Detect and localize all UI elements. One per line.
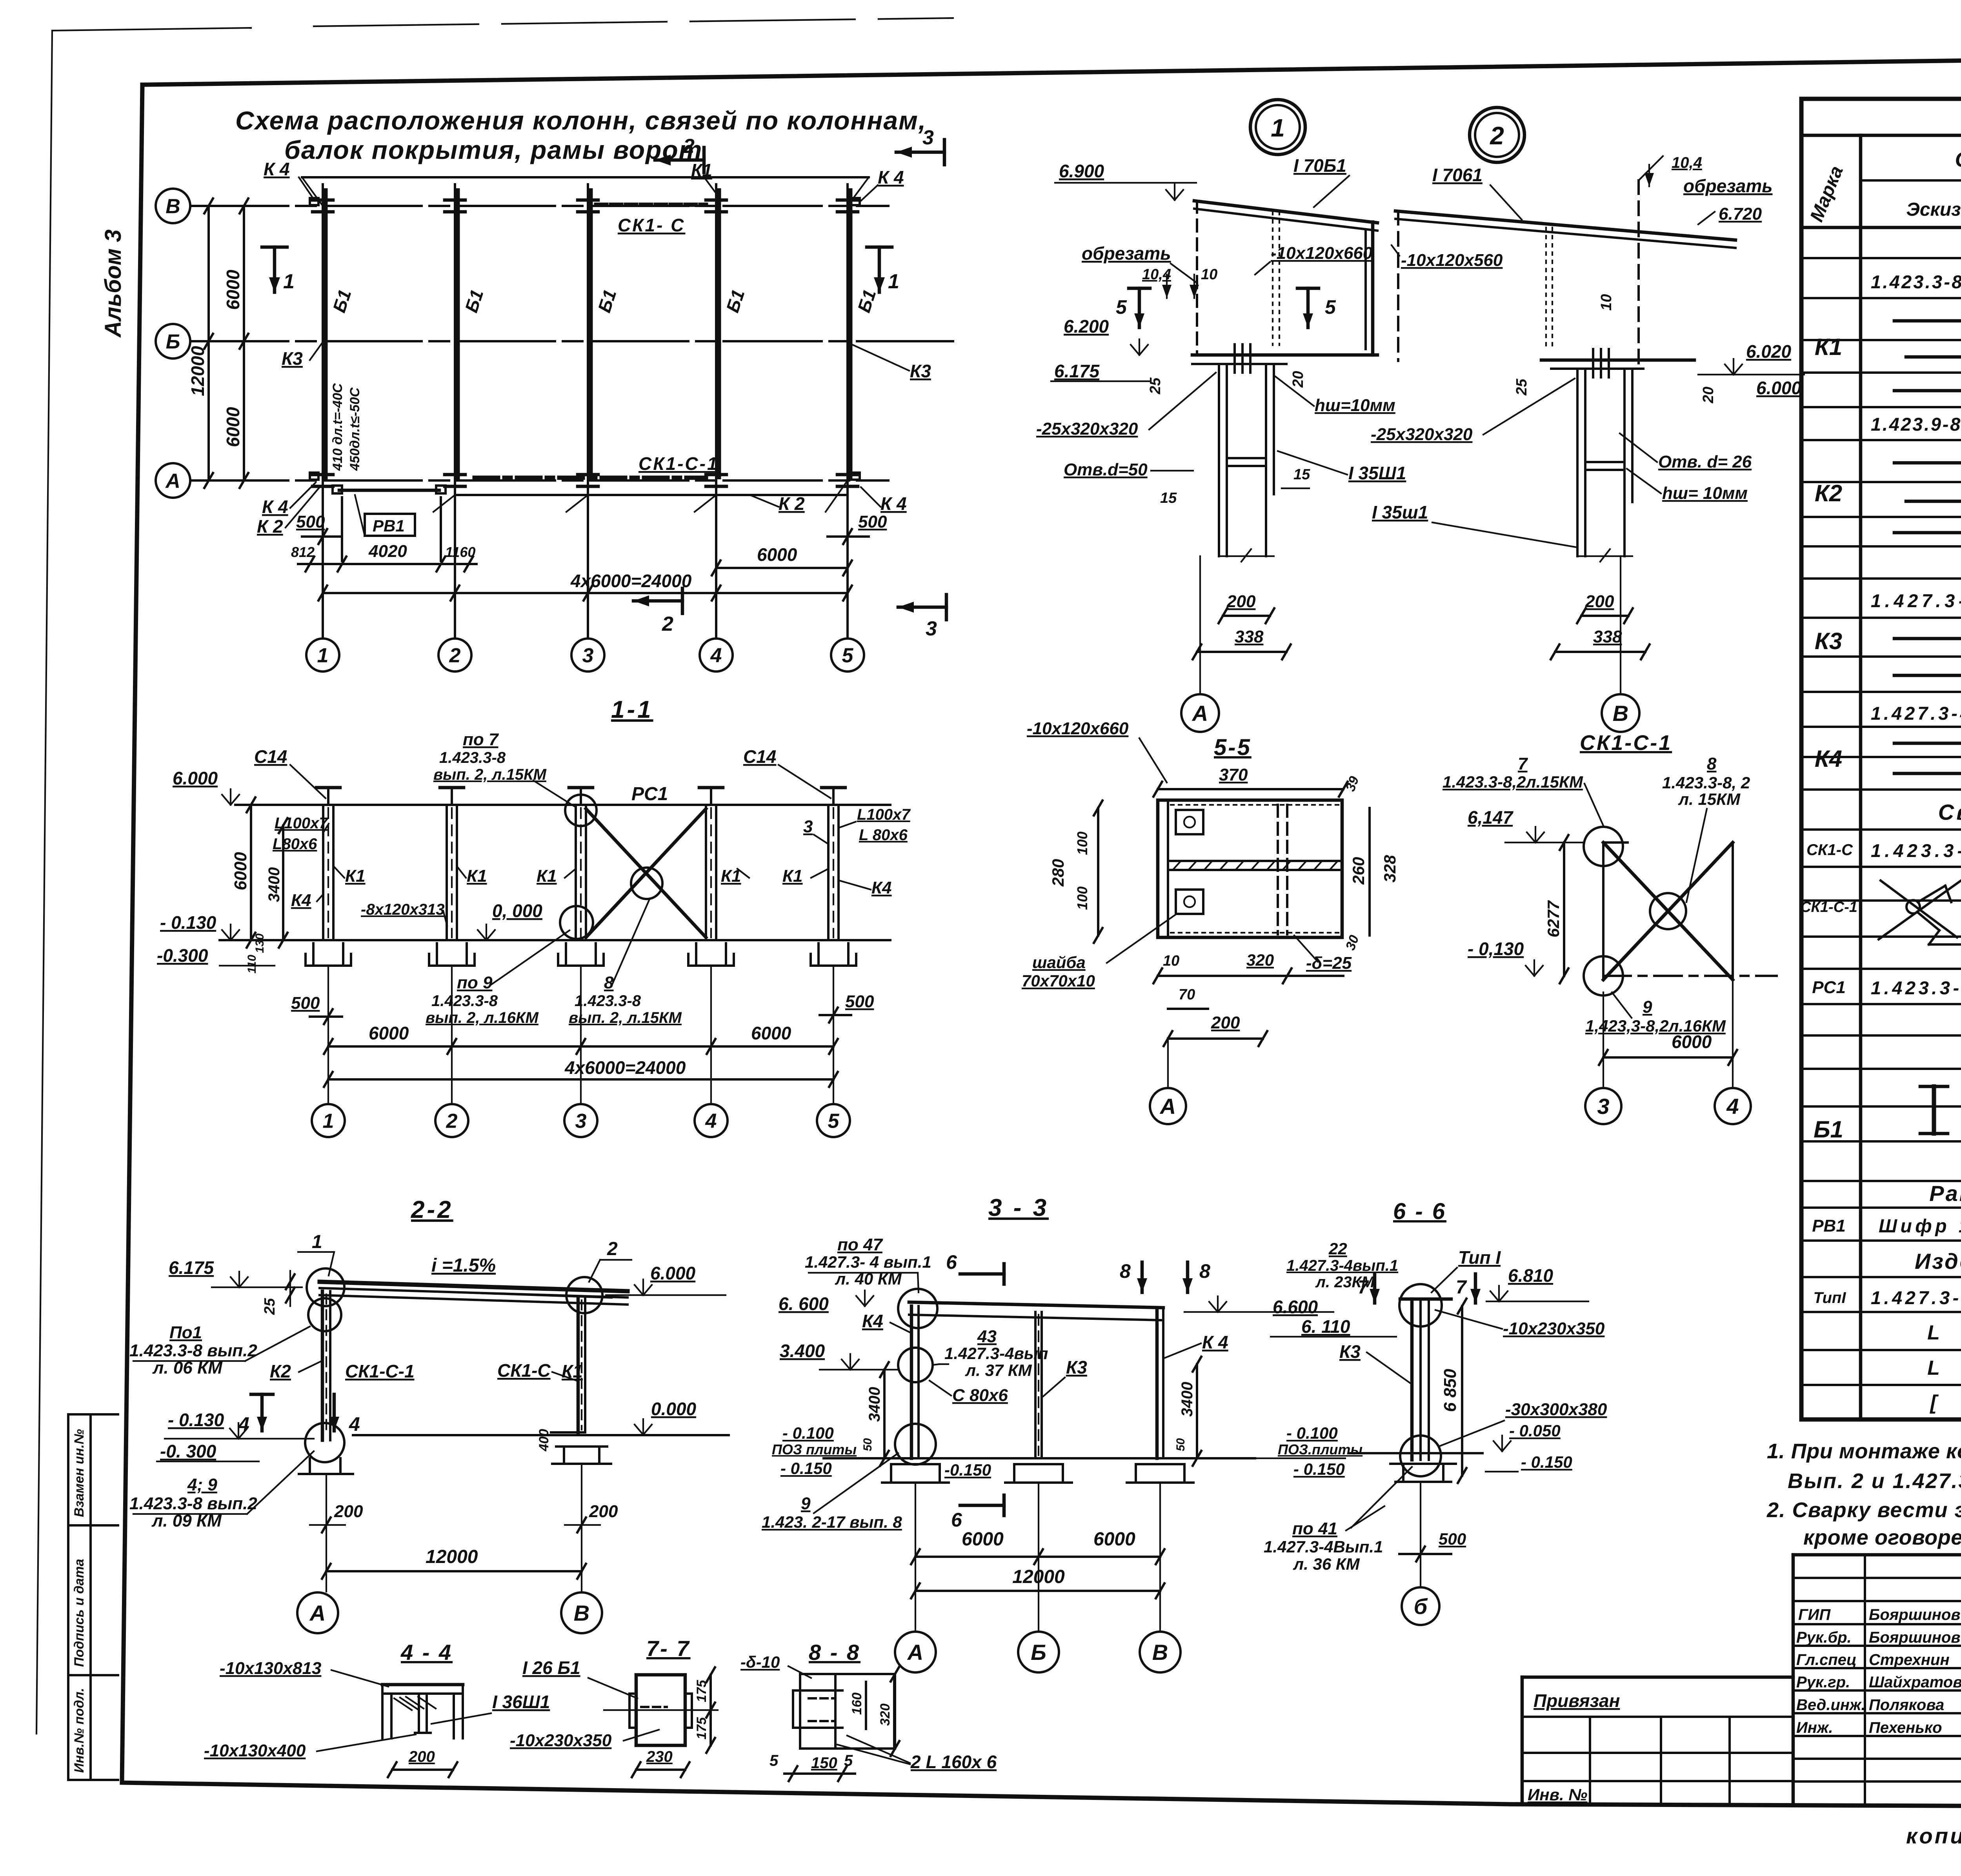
svg-text:Бояршинов: Бояршинов [1869, 1629, 1961, 1646]
svg-text:70х70х10: 70х70х10 [1022, 972, 1095, 990]
1-1 left vertical dims [250, 805, 252, 940]
2-2 node circles [307, 1268, 344, 1306]
sk brace columns [1602, 842, 1604, 980]
plan axis B [190, 340, 953, 342]
3-3 section mark 6 bottom [960, 1504, 1004, 1507]
row K2 plate 10x130x313 [1906, 500, 1961, 503]
svg-text:I 35Ш1: I 35Ш1 [1348, 463, 1406, 483]
dim row 812/4020/1160 [298, 563, 477, 565]
1-1 footing grid 2 [436, 943, 438, 966]
svg-text:6000: 6000 [962, 1529, 1004, 1550]
3-3 section mark 6 top [960, 1272, 1004, 1276]
svg-text:100: 100 [1074, 832, 1090, 855]
node2 weld stiffener dots [1545, 227, 1547, 351]
svg-text:6000: 6000 [369, 1023, 409, 1043]
column symbol at A axis grid 4 [706, 473, 726, 477]
1-1 ground line [220, 939, 890, 941]
svg-text:7- 7: 7- 7 [646, 1636, 691, 1661]
svg-text:-10х130х813: -10х130х813 [220, 1659, 321, 1678]
page paper edge top [52, 28, 251, 31]
svg-text:Гл.спец: Гл.спец [1796, 1651, 1857, 1669]
svg-text:200: 200 [334, 1502, 363, 1521]
svg-text:6: 6 [951, 1509, 962, 1531]
svg-text:410 дл.t=-40С: 410 дл.t=-40С [330, 383, 345, 471]
sk diagonals [1603, 842, 1733, 980]
svg-text:К4: К4 [871, 878, 892, 897]
5-5 bolts [1176, 810, 1203, 834]
node1 axis leader + bubble A [1199, 556, 1201, 693]
node2 left break [1397, 211, 1399, 361]
svg-text:I 26 Б1: I 26 Б1 [522, 1658, 580, 1678]
svg-text:СК1- С: СК1- С [618, 215, 685, 235]
svg-text:обрезать: обрезать [1683, 176, 1773, 196]
svg-text:3 - 3: 3 - 3 [988, 1194, 1049, 1221]
2-2 left footing [309, 1458, 311, 1474]
svg-text:СК1-С-1: СК1-С-1 [345, 1361, 415, 1381]
svg-text:4 - 4: 4 - 4 [400, 1640, 453, 1665]
svg-text:-0. 300: -0. 300 [160, 1441, 216, 1461]
svg-text:7: 7 [1518, 754, 1528, 773]
section mark 2 top [655, 158, 704, 162]
node2 bolts [1592, 349, 1594, 377]
svg-text:К4: К4 [291, 891, 311, 910]
svg-text:шайба: шайба [1032, 953, 1086, 972]
svg-text:В: В [166, 195, 180, 218]
svg-text:6.175: 6.175 [1054, 361, 1100, 381]
svg-text:ГИП: ГИП [1798, 1606, 1831, 1623]
svg-text:15: 15 [1160, 490, 1177, 506]
node1 beam I70B1 top flange [1194, 201, 1377, 223]
svg-text:200: 200 [408, 1748, 435, 1765]
2-2 ground line [353, 1434, 729, 1436]
plan grid line 4 [715, 184, 717, 637]
svg-text:i =1.5%: i =1.5% [431, 1255, 496, 1276]
column symbol at V axis grid 4 [706, 198, 726, 202]
svg-text:2 L 160х 6: 2 L 160х 6 [910, 1752, 997, 1772]
2-2 left base circle [305, 1423, 344, 1462]
svg-text:hш=10мм: hш=10мм [1315, 396, 1395, 415]
svg-text:338: 338 [1593, 627, 1622, 646]
svg-text:-10х120х660: -10х120х660 [1027, 719, 1129, 738]
grid bubble 1 [306, 639, 339, 671]
svg-text:70: 70 [1179, 986, 1195, 1003]
plan bottom wall edge [455, 494, 848, 496]
row K2 plate 8x120x313 [1894, 531, 1961, 535]
6-6 top tee [1400, 1297, 1451, 1301]
svg-text:РВ1: РВ1 [1812, 1216, 1846, 1236]
5-5 right dims [1368, 808, 1371, 935]
3-3 footings [891, 1463, 940, 1465]
svg-text:I 35ш1: I 35ш1 [1372, 502, 1428, 522]
svg-text:1: 1 [323, 1110, 334, 1133]
svg-text:500: 500 [291, 993, 320, 1013]
svg-text:22: 22 [1328, 1239, 1347, 1258]
1-1 column K1 on grid 5 [827, 805, 830, 940]
5-5 mid flange band [1168, 860, 1342, 862]
svg-text:500: 500 [858, 512, 887, 531]
svg-text:500: 500 [296, 512, 325, 531]
svg-text:L100х7: L100х7 [857, 806, 911, 823]
node 1 bubble [1250, 100, 1305, 155]
2-2 section mark 4 left [260, 1394, 264, 1431]
node2 cut dashed line right [1637, 180, 1640, 369]
svg-text:7: 7 [1358, 1277, 1369, 1298]
svg-text:РС1: РС1 [631, 784, 668, 804]
svg-text:1.423.3-8 вып.2: 1.423.3-8 вып.2 [129, 1341, 257, 1360]
svg-text:-10х130х400: -10х130х400 [204, 1741, 306, 1760]
4-4 channel section [382, 1685, 463, 1738]
svg-text:1160: 1160 [445, 544, 475, 560]
1-1 top chord line 6.000 [235, 804, 890, 806]
svg-text:6.000: 6.000 [173, 768, 218, 788]
6-6 note 41 leader [1351, 1467, 1412, 1528]
svg-text:К4: К4 [862, 1311, 883, 1331]
beam B1 on grid 4 [717, 188, 721, 479]
svg-text:2: 2 [683, 135, 695, 158]
svg-text:1. При монтаже конструкций ру: 1. При монтаже конструкций руководсвоват… [1767, 1439, 1961, 1463]
svg-text:вып. 2, л.16КМ: вып. 2, л.16КМ [426, 1009, 539, 1026]
1-1 anchor tee on top grid 4 [710, 788, 712, 805]
column symbol at A axis grid 2 [445, 473, 465, 477]
1-1 grid bubble 5 [817, 1104, 850, 1137]
svg-text:Вып. 2 и 1.427.3 - 4 Вып. 1,: Вып. 2 и 1.427.3 - 4 Вып. 1, СНиП III-24… [1788, 1469, 1961, 1493]
svg-text:3: 3 [926, 617, 937, 640]
row K1 plate 10x130x313 [1906, 355, 1961, 359]
node1 cap plate [1192, 353, 1377, 357]
7-7 section body [604, 1675, 718, 1745]
svg-text:6000: 6000 [751, 1023, 791, 1043]
svg-text:Вед.инж.: Вед.инж. [1796, 1696, 1866, 1714]
1-1 anchor tee on top grid 2 [451, 788, 453, 805]
svg-text:К4: К4 [1815, 746, 1842, 772]
svg-text:- 0.130: - 0.130 [168, 1410, 224, 1430]
svg-text:СК1-С: СК1-С [497, 1360, 551, 1381]
svg-text:6 850: 6 850 [1441, 1368, 1460, 1412]
svg-text:СК1-С-1: СК1-С-1 [639, 453, 719, 474]
8-8 dims 160 320 [865, 1682, 867, 1729]
svg-text:370: 370 [1219, 765, 1248, 784]
svg-text:3.400: 3.400 [780, 1341, 825, 1361]
svg-text:6.175: 6.175 [169, 1257, 215, 1278]
svg-text:25: 25 [1513, 378, 1530, 396]
3-3 middle column K3 [1034, 1312, 1037, 1458]
3-3 roof beam [909, 1302, 1163, 1308]
dim 6000 grid4-5 [716, 567, 848, 569]
6-6 footing [1402, 1464, 1404, 1482]
node1 column [1218, 364, 1220, 556]
svg-text:Эскиз: Эскиз [1906, 199, 1961, 220]
3-3 bubbles A B V [895, 1632, 936, 1672]
svg-text:вып. 2, л.15КМ: вып. 2, л.15КМ [569, 1009, 682, 1026]
svg-text:В: В [1613, 701, 1628, 726]
svg-text:hш= 10мм: hш= 10мм [1662, 484, 1748, 503]
6-6 base circle [1400, 1436, 1441, 1476]
svg-text:50: 50 [1174, 1438, 1187, 1451]
svg-text:320: 320 [1246, 951, 1274, 969]
row K2 plate 10x130x400 [1894, 461, 1961, 465]
svg-text:1.423.3-8 вып.2л.22КМ, л27 КМ: 1.423.3-8 вып.2л.22КМ, л27 КМ СК1-С [1871, 840, 1961, 861]
svg-text:6. 110: 6. 110 [1301, 1316, 1350, 1337]
svg-text:-δ-10: -δ-10 [740, 1653, 780, 1671]
svg-text:6.020: 6.020 [1746, 341, 1792, 362]
svg-text:Пехенько: Пехенько [1869, 1719, 1942, 1736]
vertical brace SK1-S-1 on axis A between 2-4 [475, 476, 706, 480]
column symbol at A axis grid 3 [578, 473, 598, 477]
plan grid line 5 [846, 184, 849, 637]
2-2 right column K1 [577, 1297, 580, 1432]
svg-text:по 9: по 9 [457, 973, 493, 992]
7-7 dims 175 175 [709, 1675, 712, 1745]
svg-text:СК1-С: СК1-С [1806, 841, 1853, 859]
svg-text:2: 2 [662, 613, 673, 635]
1-1 grid leader below 1 [327, 966, 329, 1104]
row K4 20x220x420 [1894, 772, 1961, 775]
vertical brace SK1-S on axis V between 3-4 [596, 203, 706, 207]
section mark 1 left [273, 247, 277, 292]
node1 weld stiffener dots [1272, 212, 1273, 345]
5-5 weld ticks top [1171, 804, 1341, 806]
2-2 section mark 4 mid [333, 1394, 336, 1431]
svg-text:5: 5 [828, 1110, 840, 1133]
gate frame RV1 below axis A [339, 489, 439, 492]
1-1 anchor tee on top grid 3 [580, 788, 582, 805]
1-1 footing grid 1 [312, 943, 315, 966]
title block signature table [1793, 1555, 1961, 1804]
svg-text:3: 3 [803, 817, 813, 836]
svg-text:л. 15КМ: л. 15КМ [1678, 790, 1741, 808]
svg-text:1.423.3-8: 1.423.3-8 [439, 749, 506, 766]
svg-text:А: А [309, 1601, 326, 1625]
svg-text:50: 50 [861, 1438, 874, 1451]
svg-text:1: 1 [1271, 114, 1285, 142]
svg-text:СК1-С-1: СК1-С-1 [1800, 899, 1857, 915]
svg-text:1.423.3-8: 1.423.3-8 [431, 992, 498, 1010]
svg-text:А: А [907, 1640, 923, 1665]
svg-text:-0.300: -0.300 [157, 945, 208, 966]
node1 section mark 5 right [1306, 288, 1310, 328]
svg-text:160: 160 [850, 1692, 864, 1715]
vertical dims 6000/6000 [243, 206, 245, 480]
drawing frame left [122, 85, 142, 1781]
svg-text:6.720: 6.720 [1719, 204, 1762, 224]
grid bubble 3 [571, 639, 604, 671]
svg-text:Бояршинов: Бояршинов [1869, 1606, 1961, 1623]
svg-text:-25х320х320: -25х320х320 [1036, 419, 1138, 439]
svg-text:200: 200 [1226, 592, 1256, 611]
1-1 column K1 on grid 1 [322, 805, 324, 940]
svg-text:1.423.9-8 вып.2 л. 01 КМ, КБ6: 1.423.9-8 вып.2 л. 01 КМ, КБ60.6-1-КС(ℓ=… [1871, 414, 1961, 435]
1-1 dim 24000 row [328, 1078, 833, 1081]
drawing frame bottom [122, 1783, 1961, 1808]
3-3 node circles on left column [898, 1348, 933, 1382]
sk node circles [1584, 827, 1623, 866]
1-1 grid leader below 3 [580, 966, 582, 1104]
svg-text:Шайхратов: Шайхратов [1869, 1674, 1961, 1691]
svg-text:К3: К3 [1815, 628, 1842, 654]
svg-text:-30х300х380: -30х300х380 [1505, 1400, 1607, 1419]
svg-text:6.900: 6.900 [1059, 161, 1104, 181]
1-1 grid bubble 1 [312, 1104, 345, 1137]
svg-text:4: 4 [1726, 1094, 1739, 1119]
svg-text:Инв.№ подл.: Инв.№ подл. [72, 1688, 87, 1773]
svg-text:230: 230 [646, 1748, 673, 1765]
svg-text:6000: 6000 [757, 544, 797, 565]
svg-text:450дл.t≤-50С: 450дл.t≤-50С [347, 388, 362, 471]
svg-text:К3: К3 [282, 348, 303, 369]
1-1 anchor tee on top grid 1 [327, 788, 329, 805]
svg-text:Схема расположения колонн, с: Схема расположения колонн, связей по кол… [235, 106, 926, 135]
svg-text:6000: 6000 [1093, 1529, 1135, 1550]
svg-text:А: А [1159, 1094, 1176, 1119]
svg-text:Рук.гр.: Рук.гр. [1796, 1674, 1850, 1691]
6-6 grid leader + bubble b [1420, 1482, 1421, 1587]
svg-text:9: 9 [1643, 997, 1652, 1017]
2-2 right small ledge [551, 1431, 585, 1434]
2-2 left column K2 [321, 1291, 324, 1440]
svg-text:5: 5 [1116, 296, 1127, 318]
svg-text:С14: С14 [743, 746, 776, 767]
svg-text:Стрехнин: Стрехнин [1869, 1651, 1950, 1669]
sketch X brace in eskiz cell [1879, 881, 1961, 939]
svg-text:1.427.3-4вып: 1.427.3-4вып [944, 1344, 1048, 1363]
1-1 column K1 on grid 2 [446, 805, 448, 940]
svg-text:6000: 6000 [223, 407, 243, 447]
column symbol at V axis grid 1 [313, 198, 333, 202]
svg-text:15: 15 [1293, 466, 1310, 483]
element table Vedomost elementov [1801, 99, 1961, 1419]
svg-text:20: 20 [1700, 387, 1717, 404]
sk bottom dash line [1603, 975, 1777, 977]
1-1 grid bubble 2 [435, 1104, 468, 1137]
svg-text:4х6000=24000: 4х6000=24000 [570, 571, 692, 591]
svg-text:6000: 6000 [223, 269, 243, 310]
svg-text:- 0,130: - 0,130 [1468, 939, 1524, 959]
svg-text:7: 7 [1456, 1277, 1467, 1298]
page paper edge left [36, 31, 52, 1734]
plan grid line 1 [322, 184, 324, 637]
svg-text:Б: Б [166, 331, 180, 353]
corner column marks K4 plan [310, 198, 318, 205]
1-1 footing grid 5 [817, 943, 820, 966]
svg-text:100: 100 [1074, 886, 1090, 910]
3-3 grid leaders [915, 1483, 916, 1631]
svg-text:3: 3 [582, 644, 594, 667]
3-3 ground line [824, 1457, 1255, 1459]
svg-text:- 0.100: - 0.100 [1286, 1424, 1338, 1442]
svg-text:10,4: 10,4 [1672, 154, 1702, 171]
svg-text:К 4: К 4 [878, 167, 904, 187]
2-2 grid leaders [326, 1474, 327, 1592]
svg-text:- 0.150: - 0.150 [1293, 1460, 1345, 1478]
svg-text:5: 5 [842, 644, 854, 667]
beam B1 on grid 2 [456, 188, 460, 479]
svg-text:280: 280 [1049, 859, 1067, 887]
svg-text:- 0.100: - 0.100 [782, 1424, 834, 1442]
svg-text:К1: К1 [691, 160, 712, 180]
svg-text:260: 260 [1349, 857, 1368, 885]
svg-text:1.423.3-8 вып.2: 1.423.3-8 вып.2 [129, 1494, 257, 1513]
svg-text:I 70Б1: I 70Б1 [1293, 155, 1346, 176]
svg-text:А: А [1192, 701, 1208, 726]
svg-text:500: 500 [845, 992, 874, 1011]
svg-text:К 2: К 2 [779, 493, 805, 514]
left small table Privyazan [1522, 1677, 1793, 1804]
svg-text:20: 20 [1290, 371, 1306, 388]
node1 column rib lines [1227, 457, 1266, 459]
svg-text:1.427.3-4вып.1: 1.427.3-4вып.1 [1286, 1257, 1398, 1274]
svg-text:6: 6 [946, 1251, 957, 1273]
svg-text:К3: К3 [1339, 1341, 1361, 1362]
6-6 node circle [1399, 1284, 1442, 1326]
svg-text:Альбом 3: Альбом 3 [100, 229, 126, 338]
svg-text:по 7: по 7 [463, 730, 499, 749]
svg-text:Рук.бр.: Рук.бр. [1796, 1629, 1852, 1646]
svg-text:6.200: 6.200 [1064, 316, 1109, 337]
svg-text:200: 200 [589, 1502, 618, 1521]
svg-text:б: б [1414, 1594, 1428, 1619]
svg-text:вып. 2, л.15КМ: вып. 2, л.15КМ [433, 766, 547, 783]
1-1 column K1 on grid 3 [575, 805, 577, 940]
svg-text:С14: С14 [254, 746, 287, 767]
svg-text:175: 175 [694, 1717, 709, 1740]
node2 break mark [1577, 555, 1632, 557]
svg-text:-10х120х560: -10х120х560 [1401, 251, 1503, 270]
svg-text:РС1: РС1 [1812, 978, 1846, 997]
svg-text:1.423.3-8: 1.423.3-8 [575, 992, 641, 1010]
svg-text:400: 400 [537, 1429, 551, 1452]
svg-text:4х6000=24000: 4х6000=24000 [564, 1057, 686, 1078]
3-3 right column [1155, 1308, 1159, 1458]
svg-text:9: 9 [801, 1494, 811, 1513]
svg-text:L: L [1927, 1321, 1940, 1344]
svg-text:по 47: по 47 [837, 1235, 883, 1254]
svg-text:СК1-С-1: СК1-С-1 [1580, 731, 1672, 755]
1-1 dim 6000 row [328, 1045, 833, 1048]
svg-text:В: В [574, 1601, 589, 1625]
5-5 plate outline [1158, 800, 1342, 937]
svg-text:6000: 6000 [1672, 1032, 1712, 1052]
svg-text:8: 8 [1120, 1260, 1131, 1282]
svg-text:12000: 12000 [187, 346, 208, 396]
svg-text:6.000: 6.000 [650, 1263, 696, 1283]
6-6 column [1410, 1299, 1414, 1460]
svg-text:Взамен ин.№: Взамен ин.№ [72, 1429, 87, 1517]
svg-text:3: 3 [922, 126, 934, 149]
2-2 bubble V [561, 1592, 602, 1633]
svg-text:25: 25 [1147, 377, 1164, 395]
2-2 right footing [563, 1447, 565, 1464]
section mark 3 top [896, 151, 944, 154]
sk bubbles 3 4 [1585, 1088, 1621, 1124]
svg-text:4020: 4020 [368, 542, 407, 561]
svg-text:ПОЗ плиты: ПОЗ плиты [772, 1441, 857, 1457]
svg-text:К1: К1 [537, 866, 557, 886]
row K4 10x150x330 konstruktivno [1894, 742, 1961, 745]
svg-text:- 0.150: - 0.150 [1521, 1453, 1572, 1471]
node1 section mark 5 left [1138, 288, 1141, 328]
svg-text:338: 338 [1235, 627, 1264, 646]
svg-text:200: 200 [1585, 592, 1614, 611]
row K1 plate 8x120x313 [1894, 389, 1961, 393]
1-1 X brace RS1 between 3-4 [586, 809, 706, 937]
svg-text:12000: 12000 [426, 1547, 478, 1567]
svg-text:К2: К2 [270, 1361, 291, 1381]
svg-text:По1: По1 [169, 1323, 202, 1342]
1-1 footing grid 4 [695, 943, 697, 966]
3-3 section marks 8 top [1141, 1262, 1144, 1292]
svg-text:500: 500 [1439, 1530, 1466, 1548]
node2 axis leader + bubble V [1620, 556, 1621, 693]
